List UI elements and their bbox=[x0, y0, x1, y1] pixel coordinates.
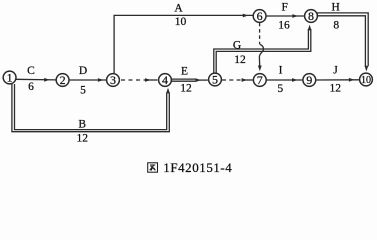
svg-text:12: 12 bbox=[234, 54, 246, 66]
arrowhead B into node 4 bbox=[166, 88, 170, 94]
arrowhead A bbox=[243, 14, 248, 18]
hop of dummy 6->7 over wire G bbox=[259, 44, 263, 57]
svg-text:B: B bbox=[78, 119, 86, 131]
svg-text:5: 5 bbox=[212, 73, 218, 87]
svg-text:C: C bbox=[27, 65, 35, 77]
svg-text:5: 5 bbox=[80, 84, 86, 96]
svg-text:A: A bbox=[174, 3, 183, 15]
node 1 bbox=[3, 71, 16, 84]
arrowhead dummy 6->7 bbox=[258, 66, 262, 72]
wire B 1->4 double line (outer) bbox=[12, 84, 169, 132]
arrowhead I bbox=[292, 78, 297, 82]
svg-text:5: 5 bbox=[277, 83, 283, 95]
arrowhead G into node 8 bbox=[308, 25, 312, 31]
wire G 5->8 double line (path B) bbox=[216, 29, 311, 73]
svg-text:D: D bbox=[79, 65, 87, 77]
wire D 2->3 bbox=[69, 79, 106, 81]
wire B 1->4 double line (inner) bbox=[15, 84, 167, 130]
svg-text:6: 6 bbox=[28, 81, 34, 93]
arrowhead J bbox=[349, 78, 354, 82]
arrowhead D bbox=[98, 78, 103, 82]
svg-text:1F420151-4: 1F420151-4 bbox=[163, 160, 232, 175]
svg-text:E: E bbox=[181, 65, 188, 77]
svg-text:G: G bbox=[233, 40, 241, 52]
wire H 8->10 double line (outer) bbox=[317, 13, 369, 66]
svg-text:10: 10 bbox=[361, 75, 371, 86]
svg-text:I: I bbox=[279, 65, 283, 77]
wire E 4->5 double line bbox=[171, 79, 197, 81]
svg-text:9: 9 bbox=[306, 73, 312, 87]
svg-text:7: 7 bbox=[257, 73, 263, 87]
node 7 bbox=[253, 74, 266, 87]
tail of dummy 3->4 bbox=[145, 79, 158, 81]
svg-text:2: 2 bbox=[60, 73, 66, 87]
wire G 5->8 double line (path A) bbox=[214, 29, 309, 73]
arrowhead C bbox=[44, 78, 49, 82]
dummy arrow 5->7 dashed bbox=[222, 79, 242, 81]
svg-text:8: 8 bbox=[308, 9, 314, 23]
svg-text:16: 16 bbox=[278, 20, 290, 32]
arrowhead F bbox=[292, 14, 297, 18]
wire segment dummy 6->7 below hop bbox=[258, 58, 260, 67]
node 4 bbox=[159, 74, 172, 87]
arrowhead dummy 5->7 bbox=[242, 78, 247, 82]
wire H 8->10 double line (inner) bbox=[317, 16, 366, 66]
node 8 bbox=[305, 10, 318, 23]
dummy arrow 6->7 dashed vertical bbox=[259, 23, 261, 44]
arrowhead E bbox=[196, 78, 201, 82]
arrowhead dummy 3->4 bbox=[145, 78, 150, 82]
svg-text:3: 3 bbox=[110, 73, 116, 87]
wire C 1->2 bbox=[16, 78, 56, 81]
svg-text:8: 8 bbox=[333, 20, 339, 32]
svg-text:1: 1 bbox=[7, 71, 13, 85]
svg-text:12: 12 bbox=[330, 82, 342, 94]
svg-text:J: J bbox=[333, 65, 338, 77]
arrowhead H into node 10 bbox=[365, 66, 369, 72]
wire A 3->6 elbow bbox=[114, 15, 253, 73]
svg-text:12: 12 bbox=[76, 132, 88, 144]
tail of dummy 5->7 bbox=[242, 79, 253, 81]
wire I 7->9 bbox=[266, 79, 302, 81]
node 2 bbox=[56, 74, 69, 87]
wire J 9->10 bbox=[316, 79, 359, 81]
svg-text:4: 4 bbox=[162, 73, 168, 87]
wire F 6->8 bbox=[266, 15, 304, 17]
svg-text:12: 12 bbox=[180, 82, 192, 94]
caption hanzi "图" drawn as vector strokes bbox=[148, 163, 158, 172]
node 3 bbox=[107, 74, 120, 87]
node 10 bbox=[360, 73, 373, 86]
node 9 bbox=[303, 74, 316, 87]
svg-text:6: 6 bbox=[257, 9, 263, 23]
node 5 bbox=[209, 73, 222, 86]
svg-text:10: 10 bbox=[175, 16, 187, 28]
node 6 bbox=[253, 10, 266, 23]
svg-text:H: H bbox=[331, 1, 339, 13]
tail of E bbox=[196, 79, 208, 81]
dummy arrow 3->4 dashed bbox=[121, 79, 145, 81]
svg-text:F: F bbox=[281, 1, 287, 13]
